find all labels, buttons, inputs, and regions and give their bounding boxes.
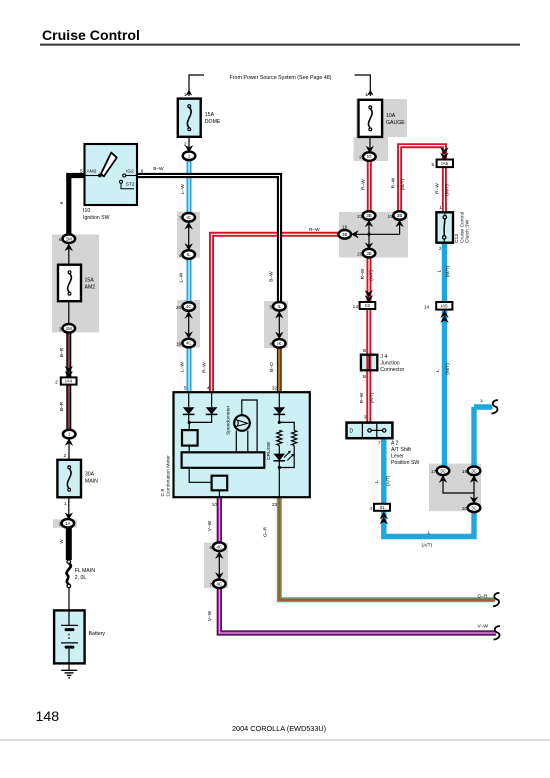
svg-text:15A: 15A — [205, 112, 215, 118]
svg-text:5: 5 — [432, 162, 435, 168]
svg-text:L–W: L–W — [180, 362, 186, 372]
svg-text:Speedometer: Speedometer — [226, 405, 232, 435]
svg-text:3B: 3B — [397, 213, 402, 218]
svg-text:Position SW: Position SW — [391, 460, 419, 466]
svg-text:Connector: Connector — [380, 367, 404, 373]
svg-text:7: 7 — [210, 582, 213, 588]
svg-text:2. 0L: 2. 0L — [75, 575, 87, 581]
svg-text:IA4: IA4 — [65, 379, 72, 384]
svg-text:Junction: Junction — [380, 360, 399, 366]
svg-text:4: 4 — [179, 253, 182, 259]
svg-text:3C: 3C — [471, 468, 477, 473]
svg-text:From Power Source System (See: From Power Source System (See Page 48) — [230, 75, 332, 81]
svg-text:3B: 3B — [342, 232, 347, 237]
svg-text:6: 6 — [141, 169, 144, 175]
svg-text:B–W: B–W — [153, 166, 164, 172]
svg-text:R–W: R–W — [361, 179, 367, 190]
svg-text:(M/T): (M/T) — [445, 265, 451, 277]
svg-text:8: 8 — [210, 545, 213, 551]
svg-text:IK: IK — [277, 341, 281, 346]
svg-text:FL MAIN: FL MAIN — [75, 568, 96, 574]
svg-text:19: 19 — [176, 341, 182, 347]
svg-text:4C: 4C — [216, 544, 222, 549]
svg-text:Combination Meter: Combination Meter — [165, 455, 171, 497]
svg-text:4: 4 — [207, 386, 210, 392]
svg-text:Cruise Control: Cruise Control — [42, 27, 140, 43]
svg-text:IA5: IA5 — [441, 304, 448, 309]
svg-text:3: 3 — [364, 414, 367, 420]
svg-text:(A/T): (A/T) — [369, 270, 375, 281]
svg-text:20: 20 — [462, 506, 468, 512]
svg-text:23: 23 — [272, 502, 278, 508]
svg-text:2: 2 — [64, 453, 67, 459]
svg-text:3C: 3C — [471, 505, 477, 510]
svg-text:B–R: B–R — [59, 347, 65, 357]
svg-text:R–W: R–W — [435, 183, 441, 194]
svg-text:14: 14 — [353, 304, 359, 310]
svg-text:C 9: C 9 — [160, 489, 166, 497]
svg-text:IL: IL — [277, 304, 281, 309]
svg-text:Lever: Lever — [391, 453, 404, 459]
svg-text:1: 1 — [439, 205, 442, 211]
svg-text:L: L — [435, 369, 441, 372]
svg-text:L–W: L–W — [179, 272, 185, 282]
svg-text:(M/T): (M/T) — [400, 178, 406, 190]
svg-text:ST2: ST2 — [126, 182, 135, 188]
svg-text:(A/T): (A/T) — [422, 542, 433, 548]
svg-text:B–W: B–W — [269, 271, 275, 282]
svg-text:20: 20 — [176, 305, 182, 311]
svg-text:(A/T): (A/T) — [386, 475, 392, 486]
svg-text:2: 2 — [359, 155, 362, 161]
svg-text:IC: IC — [186, 215, 190, 220]
svg-text:R–W: R–W — [360, 268, 366, 279]
svg-text:19: 19 — [388, 214, 394, 220]
svg-text:2: 2 — [55, 380, 58, 386]
svg-text:R–W: R–W — [391, 177, 397, 188]
svg-text:V–W: V–W — [207, 610, 213, 621]
svg-text:Ignition SW: Ignition SW — [83, 215, 110, 221]
svg-text:AM2: AM2 — [87, 169, 97, 175]
svg-text:DOME: DOME — [205, 119, 221, 125]
svg-text:2: 2 — [439, 246, 442, 252]
svg-text:GAUGE: GAUGE — [386, 120, 405, 126]
svg-text:Battery: Battery — [89, 631, 106, 637]
svg-text:IL: IL — [187, 252, 191, 257]
svg-text:1: 1 — [365, 92, 368, 98]
svg-text:5: 5 — [184, 386, 187, 392]
svg-text:30A: 30A — [85, 471, 95, 477]
svg-text:1: 1 — [64, 501, 67, 507]
svg-text:1M: 1M — [66, 236, 72, 241]
svg-text:3B: 3B — [366, 213, 371, 218]
svg-text:II1: II1 — [379, 505, 385, 510]
svg-text:3: 3 — [59, 326, 62, 332]
svg-text:2004 COROLLA (EWD533U): 2004 COROLLA (EWD533U) — [232, 724, 326, 733]
svg-text:CRUISE: CRUISE — [266, 441, 272, 460]
svg-text:2: 2 — [184, 142, 187, 148]
svg-text:6: 6 — [59, 237, 62, 243]
svg-text:4C: 4C — [186, 304, 192, 309]
svg-text:IA5: IA5 — [441, 161, 448, 166]
svg-text:3C: 3C — [440, 468, 446, 473]
svg-text:148: 148 — [36, 709, 60, 725]
svg-text:3B: 3B — [366, 251, 371, 256]
svg-text:20: 20 — [357, 252, 363, 258]
svg-text:4C: 4C — [216, 581, 222, 586]
svg-text:(M/T): (M/T) — [445, 184, 451, 196]
svg-text:L: L — [437, 269, 443, 272]
svg-text:B–R: B–R — [59, 401, 65, 411]
svg-text:4C: 4C — [186, 341, 192, 346]
svg-text:4: 4 — [370, 506, 373, 512]
svg-text:A/T Shift: A/T Shift — [391, 447, 411, 453]
svg-text:5: 5 — [270, 305, 273, 311]
svg-text:(M/T): (M/T) — [445, 363, 451, 375]
svg-text:L: L — [374, 480, 380, 483]
svg-text:R–W: R–W — [309, 227, 320, 233]
svg-text:II2: II2 — [365, 303, 371, 308]
svg-text:5: 5 — [80, 169, 83, 175]
svg-text:R–W: R–W — [202, 362, 208, 373]
svg-text:C13: C13 — [454, 234, 460, 243]
svg-text:16: 16 — [342, 225, 348, 231]
svg-text:G–R: G–R — [478, 594, 488, 600]
svg-text:10: 10 — [212, 502, 218, 508]
svg-text:V–W: V–W — [207, 520, 213, 531]
svg-text:17: 17 — [431, 469, 437, 475]
svg-text:B–O: B–O — [269, 362, 275, 372]
svg-text:14: 14 — [424, 304, 430, 310]
svg-text:IG2: IG2 — [126, 169, 134, 175]
svg-text:7: 7 — [179, 216, 182, 222]
svg-text:1A: 1A — [65, 521, 70, 526]
svg-text:AM2: AM2 — [85, 284, 96, 290]
svg-text:MAIN: MAIN — [85, 478, 98, 484]
svg-text:J 4: J 4 — [380, 354, 387, 360]
svg-text:Clutch SW: Clutch SW — [465, 220, 471, 243]
svg-text:L: L — [481, 398, 484, 404]
svg-text:B: B — [363, 374, 366, 380]
svg-text:32: 32 — [272, 386, 278, 392]
svg-text:L–W: L–W — [180, 184, 186, 194]
svg-text:1: 1 — [184, 92, 187, 98]
svg-text:V–W: V–W — [478, 624, 489, 630]
svg-text:I10: I10 — [83, 208, 90, 214]
svg-text:6: 6 — [59, 201, 65, 204]
svg-text:19: 19 — [462, 469, 468, 475]
svg-text:15A: 15A — [85, 277, 95, 283]
svg-text:L: L — [428, 530, 431, 536]
svg-text:10A: 10A — [386, 113, 396, 119]
svg-text:D: D — [349, 429, 353, 435]
svg-text:22: 22 — [357, 214, 363, 220]
svg-text:R–W: R–W — [359, 392, 365, 403]
svg-text:IG: IG — [367, 154, 372, 159]
svg-text:W: W — [59, 539, 64, 543]
svg-text:1M: 1M — [66, 326, 72, 331]
svg-text:8: 8 — [270, 342, 273, 348]
svg-text:B: B — [363, 348, 366, 354]
svg-text:G–R: G–R — [262, 527, 268, 537]
svg-text:7: 7 — [378, 440, 381, 446]
svg-text:(A/T): (A/T) — [369, 392, 375, 403]
svg-text:1: 1 — [59, 521, 62, 527]
svg-text:A 2: A 2 — [391, 440, 399, 446]
svg-text:Cruise Control: Cruise Control — [459, 212, 465, 243]
